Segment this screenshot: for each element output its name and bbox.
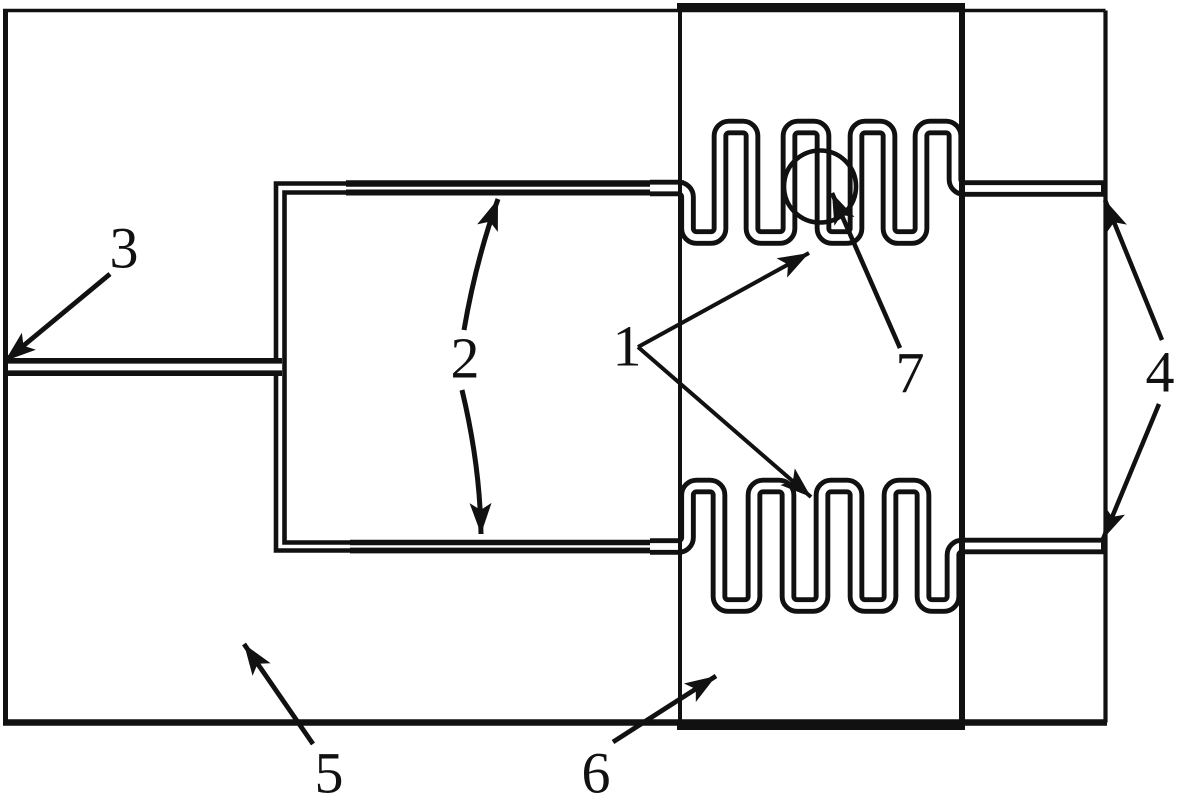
feed line 3 (input microstrip from left edge to patch 2): [3, 358, 282, 376]
arrow for label 7 (to circle): [832, 193, 900, 348]
patch 2 outer outline (top edge, left edge, bottom edge): [276, 184, 684, 551]
label 3: [110, 219, 139, 277]
coupling point circle 7: [784, 151, 856, 223]
arrow for label 2 (down): [462, 390, 481, 534]
arrow for label 5 (to ground plane): [244, 644, 313, 744]
label 2: [451, 329, 480, 387]
meander line 1 (top) - conductor body: [650, 127, 1106, 238]
label 7: [896, 344, 925, 402]
arrow for label 4 (to bottom output port): [1103, 404, 1159, 539]
label 6: [582, 744, 611, 801]
patch 2 inner outline thicker right segment (scan artifact): [346, 190, 684, 196]
arrow for label 6 (to substrate strip): [613, 676, 716, 742]
meander line 1 (top) - outline slot: [650, 127, 1101, 238]
patch 2 outer outline thicker right segment (scan artifact): [346, 180, 684, 187]
patch 2 inner outline: [285, 193, 685, 543]
meander line 1 (bottom) - conductor body: [650, 486, 1106, 606]
substrate strip 6 (vertical board edges): [677, 3, 965, 730]
label 1: [613, 317, 642, 375]
label 5: [315, 744, 344, 801]
arrow for label 1 (to bottom meander): [638, 347, 811, 497]
meander line 1 (bottom) - outline slot: [650, 486, 1101, 606]
arrow for label 1 (to top meander): [638, 253, 809, 347]
label 4: [1146, 343, 1175, 401]
arrow for label 4 (to top output port): [1105, 200, 1162, 340]
arrow for label 2 (up): [464, 199, 498, 330]
arrow for label 3: [5, 274, 110, 361]
